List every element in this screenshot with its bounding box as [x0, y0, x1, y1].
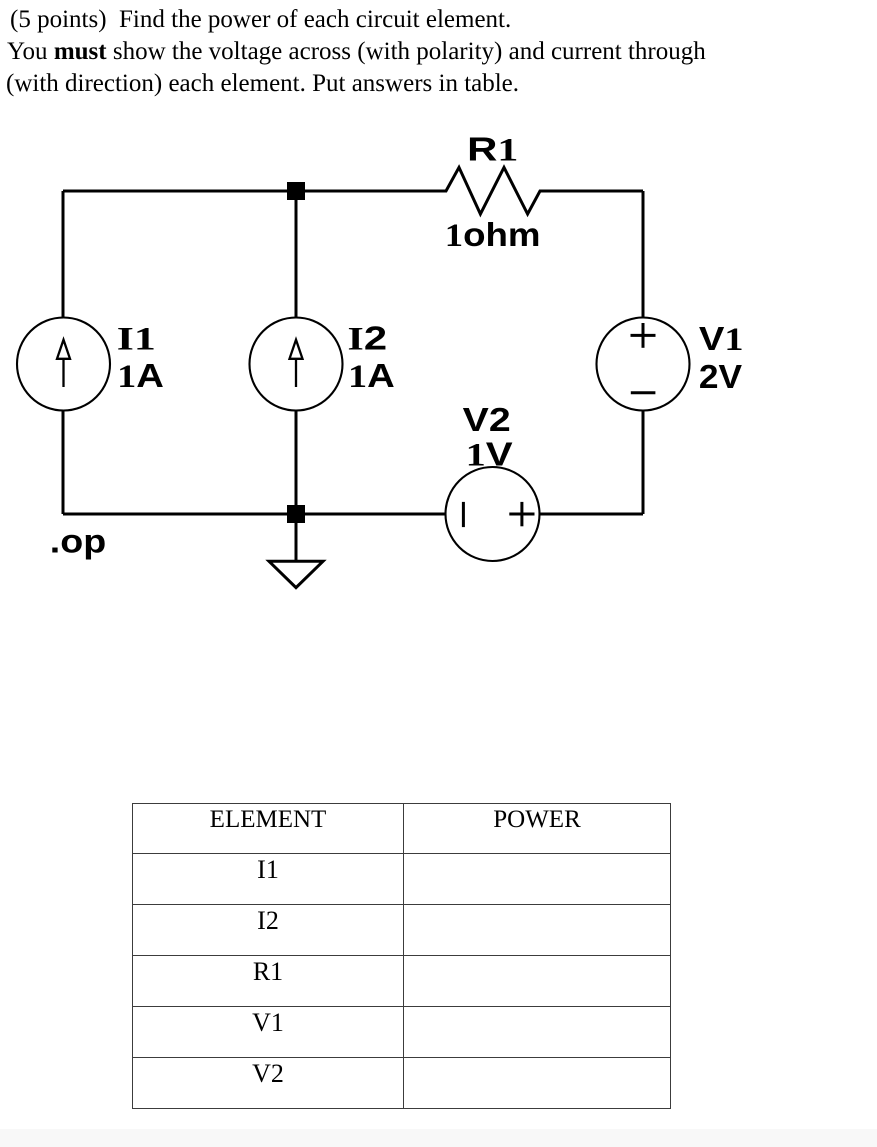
svg-text:I2: I2 [348, 320, 387, 358]
svg-text:V1: V1 [699, 320, 744, 357]
svg-text:.op: .op [50, 523, 106, 559]
svg-text:1V: 1V [466, 436, 514, 473]
svg-text:1ohm: 1ohm [445, 217, 541, 254]
svg-text:V2: V2 [463, 401, 511, 438]
svg-text:1A: 1A [117, 357, 164, 394]
svg-text:1A: 1A [348, 357, 395, 394]
svg-text:R1: R1 [467, 131, 518, 169]
svg-text:I1: I1 [117, 321, 156, 358]
svg-text:2V: 2V [699, 359, 742, 396]
